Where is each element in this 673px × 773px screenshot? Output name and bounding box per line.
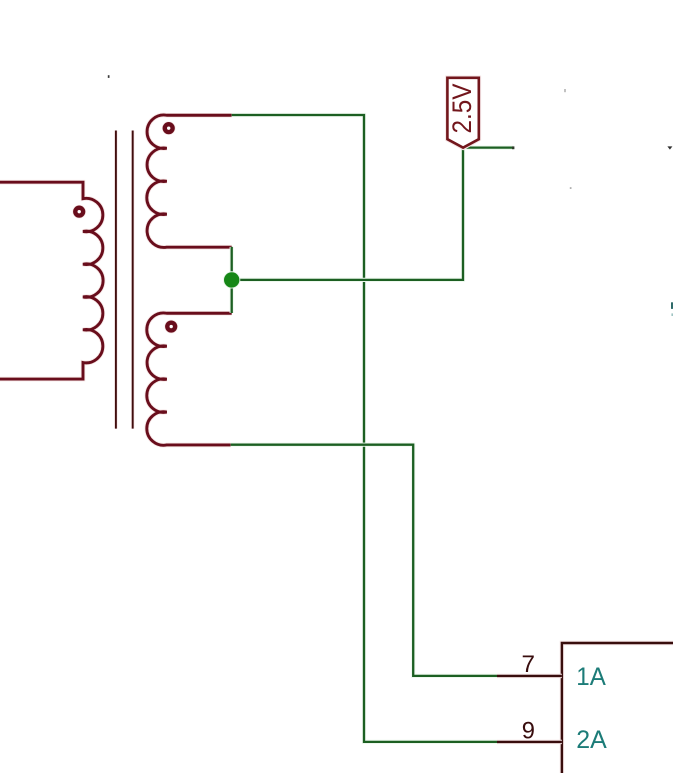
transformer T1 secondary top polarity dot <box>162 121 176 135</box>
wire net N2 center tap vertical <box>230 247 234 313</box>
svg-text:2.5V: 2.5V <box>447 84 477 134</box>
wire net N3 bottom secondary to pin 7 <box>231 445 497 676</box>
transformer T1 secondary winding bottom half <box>147 313 232 445</box>
screen artifact arrow D <box>667 146 672 149</box>
transformer T1 primary winding <box>0 182 103 379</box>
wire net N1 top secondary to pin 9 <box>232 115 497 742</box>
svg-text:2A: 2A <box>576 727 607 754</box>
wire end cap on 2.5V stub <box>512 146 514 149</box>
screen artifact dot C <box>570 187 572 189</box>
transformer T1 secondary bottom polarity dot <box>164 320 178 334</box>
screen artifact dot A <box>108 75 110 78</box>
supply flag 2.5V <box>447 78 479 148</box>
screen artifact dash B <box>564 89 565 92</box>
clipped teal text fragment F <box>671 313 673 316</box>
IC U1 pin 9 lead <box>497 740 562 744</box>
IC U1 outline (clipped at right edge) <box>562 643 673 773</box>
transformer T1 core line 1 <box>114 130 117 428</box>
transformer T1 secondary winding top half <box>147 115 232 247</box>
svg-text:7: 7 <box>522 651 536 678</box>
wire net N2 horizontal to 2.5V <box>232 148 514 280</box>
svg-text:1A: 1A <box>576 664 606 691</box>
IC U1 pin 7 lead <box>497 674 562 678</box>
transformer T1 core line 2 <box>131 130 134 428</box>
svg-text:9: 9 <box>522 717 535 744</box>
transformer T1 primary polarity dot <box>72 205 86 219</box>
junction dot center tap <box>223 271 240 288</box>
clipped teal text fragment E <box>671 302 673 309</box>
